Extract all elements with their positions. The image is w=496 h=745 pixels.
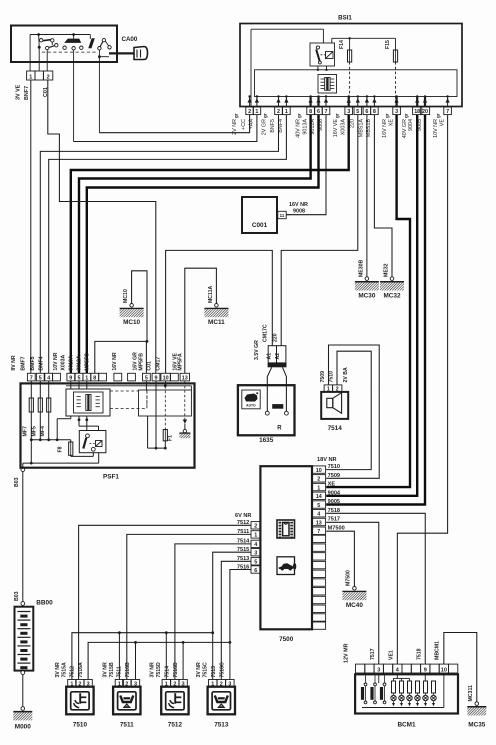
svg-text:7510: 7510 [328,464,340,470]
PSF1 internal ground [179,420,190,439]
BCM1 fuses and outputs [391,681,436,706]
wire 7511 [127,534,251,679]
svg-text:gr: gr [335,113,340,118]
wire 9013A (thick) [79,115,311,374]
svg-text:7514: 7514 [165,666,171,678]
svg-text:12V MR: 12V MR [344,643,350,663]
svg-text:R: R [277,426,282,432]
svg-text:3V NR: 3V NR [196,662,202,678]
svg-text:CM17: CM17 [155,357,161,371]
svg-text:3.5V GR: 3.5V GR [254,340,260,360]
connector box C001 [242,197,277,233]
svg-text:9: 9 [424,667,427,673]
mechanical link dashes [42,51,98,53]
ignition switch CA00 box [11,26,138,63]
svg-text:A1: A1 [266,353,272,360]
svg-text:F14: F14 [339,40,345,49]
wire 7514 [175,544,251,680]
1635 icon [242,390,260,409]
PSF1 box [21,383,195,467]
key symbol [109,47,148,60]
ground MC30 [355,259,379,299]
wire MP5FB to ground MC10 [145,341,148,373]
svg-text:MC11: MC11 [208,319,225,326]
svg-text:5: 5 [39,375,42,381]
svg-text:9004: 9004 [328,490,341,496]
svg-text:14: 14 [316,494,322,500]
svg-text:M7500: M7500 [328,525,345,531]
svg-text:8: 8 [373,109,376,115]
1635 internal bar [272,404,283,409]
svg-text:7518: 7518 [417,648,423,660]
svg-text:BSI1: BSI1 [338,15,352,22]
svg-text:PSF1: PSF1 [103,474,119,481]
BSI connector icon [318,75,337,94]
svg-text:gr: gr [436,113,441,118]
CA00 internal top rail [30,33,90,71]
svg-text:C01: C01 [147,361,153,371]
svg-text:2V GR: 2V GR [262,119,268,135]
svg-text:7500: 7500 [279,636,294,643]
relay coil return [23,440,99,468]
wire 7509 [326,345,379,478]
svg-text:BCM1: BCM1 [397,722,416,729]
svg-text:40V GR: 40V GR [402,119,408,138]
PSF1 connector module A [66,389,110,416]
svg-text:9012A: 9012A [76,355,82,371]
battery BB00 [15,600,54,675]
svg-text:16V NR: 16V NR [112,352,118,370]
svg-text:F8: F8 [58,446,64,452]
svg-text:7516C: 7516C [220,662,226,678]
svg-text:3: 3 [347,109,350,115]
wire MBS1B to MC32 [374,115,392,277]
svg-text:7517: 7517 [370,648,376,660]
svg-text:16V NR: 16V NR [382,119,388,138]
wire 7517 [326,522,379,664]
svg-text:2: 2 [317,477,320,483]
svg-text:7510: 7510 [73,722,88,729]
svg-text:5: 5 [317,503,320,509]
wire +AA [74,115,257,142]
wire BMF7 [30,80,32,373]
svg-text:3V VE: 3V VE [16,84,22,100]
svg-text:1: 1 [29,74,32,80]
svg-text:6V NR: 6V NR [235,513,251,519]
wire MBS1A to MC30 [366,115,368,277]
fuse MF7 [22,381,33,440]
svg-text:B03: B03 [14,477,20,487]
7500 car icon [277,557,296,575]
svg-text:MC311: MC311 [468,685,474,702]
svg-text:VE1: VE1 [389,650,395,660]
svg-text:3: 3 [395,109,398,115]
svg-text:VE: VE [440,119,446,127]
wire XE (thick) [326,115,410,488]
svg-text:11: 11 [280,213,285,218]
svg-text:4: 4 [317,512,320,518]
svg-text:ME32: ME32 [384,263,390,277]
ignition contact 1 [38,35,58,72]
svg-text:2: 2 [248,109,251,115]
BSI wire labels [232,119,445,139]
node B03 bottom [14,591,25,605]
PSF1 module B [139,390,192,416]
ground MC10 [120,289,144,326]
wire CM17 [166,250,273,373]
BCM1 relays [361,675,386,703]
node B03 top [14,468,25,487]
key feed wire [98,55,109,58]
labels 7509 7510 2V BA [320,367,349,383]
svg-text:18V NR: 18V NR [317,457,337,463]
svg-text:7511: 7511 [117,666,123,677]
svg-text:7: 7 [325,109,328,115]
wire 9012A (thick) [87,115,319,374]
svg-text:gr: gr [263,113,268,118]
7500 left pin boxes [251,522,260,574]
svg-text:MC35: MC35 [468,722,485,729]
BCM1 internal feeds [362,673,444,708]
svg-text:7515C: 7515C [202,662,208,678]
7500 box [260,466,312,629]
svg-text:13: 13 [182,375,188,381]
link module to bus [57,416,71,440]
BCM1 box [355,674,458,713]
BSI pin stubs with arrows [248,95,450,107]
svg-text:7515B: 7515B [109,662,115,678]
C001 pin 11 [278,211,290,218]
svg-text:MP5FB: MP5FB [139,353,145,371]
svg-text:XE: XE [328,482,336,488]
svg-text:MC11A: MC11A [208,285,214,303]
wire C01 net [48,80,156,373]
PSF1 fuse bus [30,438,71,441]
ground MC32 [380,263,404,299]
svg-text:7516D: 7516D [173,662,179,678]
svg-text:8: 8 [309,109,312,115]
fuse F8 [58,440,94,457]
svg-text:MC10: MC10 [123,289,129,303]
ignition contact 3 [88,38,111,132]
svg-text:X003A: X003A [60,354,66,370]
svg-text:MC10: MC10 [123,319,140,326]
wire MP5FA to ground MC11 [185,268,217,373]
svg-text:MC30: MC30 [358,293,375,300]
7500 right labels [317,457,345,531]
wire MP5FC [95,340,149,373]
svg-text:10: 10 [441,667,447,673]
svg-text:MF4: MF4 [40,426,46,436]
fuse F15 [385,40,398,62]
svg-text:2: 2 [254,524,257,530]
svg-text:4: 4 [47,375,50,381]
svg-text:5: 5 [254,560,257,566]
wire 7518 [326,513,425,664]
svg-text:9: 9 [69,375,72,381]
svg-text:CM17C: CM17C [262,324,268,342]
svg-text:7515A: 7515A [62,662,68,678]
svg-text:ME30B: ME30B [358,259,364,277]
svg-text:9: 9 [155,375,158,381]
svg-text:7509: 7509 [328,473,340,479]
svg-text:3V NR: 3V NR [55,662,61,678]
svg-text:M7500: M7500 [346,570,352,586]
7514 pins 1 2 [324,385,342,393]
svg-text:18: 18 [414,109,420,115]
svg-text:1635: 1635 [259,437,274,444]
svg-text:7512: 7512 [168,722,183,729]
svg-text:10V NR: 10V NR [53,352,59,370]
ground MC40 [342,570,366,609]
7500 left labels [235,513,251,571]
wire 9008 [286,115,326,215]
BCM1 labels [344,641,441,663]
door switch 7510 [55,662,94,729]
door switch 7511 [103,662,141,729]
wire +CC [99,115,249,133]
svg-text:B03: B03 [14,591,20,601]
PSF1 internal bus [66,384,191,390]
svg-text:gr: gr [297,113,302,118]
svg-text:220: 220 [273,333,279,342]
svg-text:BB00: BB00 [36,600,53,607]
svg-text:MC32: MC32 [383,293,400,300]
svg-text:7513: 7513 [211,666,217,678]
svg-text:MP5FC: MP5FC [85,353,91,371]
7500 chip icon [277,520,295,538]
svg-text:5: 5 [145,375,148,381]
svg-text:1: 1 [85,375,88,381]
svg-text:3: 3 [377,667,380,673]
wire 7513 [221,561,251,679]
svg-text:5: 5 [78,375,81,381]
connector C01 [27,71,53,80]
svg-text:5: 5 [356,109,359,115]
svg-text:gr: gr [385,113,390,118]
fuse MF4 [40,381,51,440]
svg-text:16V NR: 16V NR [289,202,308,208]
wire 7512 [79,525,251,679]
wire 7515 + bus [72,552,251,679]
svg-text:8V NR: 8V NR [11,355,17,371]
BSI internal rail to +CC [251,29,323,107]
svg-text:220: 220 [350,119,356,128]
svg-text:7517: 7517 [328,517,340,523]
svg-text:BMF5: BMF5 [30,356,36,370]
wire X003A (thick) [71,115,349,374]
svg-text:3V NR: 3V NR [150,662,156,678]
svg-text:MP5FA: MP5FA [177,353,183,371]
relay in BSI1 [310,29,335,71]
door switch 7512 [150,662,189,729]
svg-text:10V NR: 10V NR [433,119,439,138]
svg-text:gr: gr [234,113,239,118]
svg-text:MBS1A: MBS1A [359,119,365,138]
label 16V NR 9008 [289,202,308,215]
svg-text:1: 1 [255,109,258,115]
ground MC11 [204,285,228,326]
svg-text:10: 10 [316,468,322,474]
BSI1 inner bus band [255,70,458,97]
fuse F1 [148,430,174,450]
svg-text:6: 6 [365,109,368,115]
link module to relay [78,416,99,431]
svg-text:7511: 7511 [120,722,134,729]
svg-text:9008: 9008 [293,209,305,215]
svg-text:F1: F1 [168,435,174,441]
svg-text:7: 7 [446,109,449,115]
1635 pins A1 A2 [266,346,286,368]
svg-text:X003A: X003A [341,119,347,136]
PSF1 relay [79,431,106,453]
wire BNF5 [40,115,278,374]
svg-text:7516B: 7516B [125,662,131,678]
svg-text:1: 1 [317,485,320,491]
wire 220 [281,115,358,346]
svg-text:F15: F15 [385,40,391,49]
svg-text:9005: 9005 [328,499,340,505]
wire 9004 (thick) [326,115,417,496]
svg-text:7513: 7513 [214,722,229,729]
svg-text:BMF4: BMF4 [38,356,44,370]
1635 lead wires [265,367,288,415]
wire battery to M000 [22,675,24,707]
svg-text:1: 1 [254,533,257,539]
svg-text:8: 8 [93,375,96,381]
1635 box [238,385,295,435]
svg-text:7: 7 [30,375,33,381]
ignition contact 2 [63,35,83,142]
ground MC35 [467,685,486,729]
svg-text:10: 10 [163,375,169,381]
svg-text:7516A: 7516A [78,662,84,678]
svg-text:2V BA: 2V BA [343,367,349,383]
svg-text:20: 20 [422,109,428,115]
svg-text:9013A: 9013A [302,119,308,135]
PSF1 dashed module extension [110,391,147,409]
label 3V VE BNF7 C01 [16,84,50,100]
svg-text:BNF5: BNF5 [270,119,276,133]
svg-text:+CC: +CC [241,119,247,130]
svg-text:9004: 9004 [408,119,414,131]
labels 3.5V GR CM17C 220 [254,324,278,360]
svg-text:3V NR: 3V NR [103,662,109,678]
BSI pin boxes [246,107,452,115]
svg-text:MF5: MF5 [31,426,37,436]
svg-text:3: 3 [254,551,257,557]
PSF1 top labels [11,352,184,371]
svg-text:4: 4 [254,542,257,548]
svg-text:16V VE: 16V VE [333,119,339,138]
BCM1 pin row [356,664,458,673]
svg-text:2: 2 [47,74,50,80]
svg-text:gr: gr [404,113,409,118]
wire M7500 to MC40 [326,531,354,586]
wire 9005 (thick) [326,115,425,505]
svg-text:6: 6 [317,109,320,115]
svg-text:1: 1 [285,109,288,115]
wires pins 9,5,1 into module [71,381,87,389]
wire MBCM1 to MC35 [444,633,477,702]
svg-text:XE: XE [389,119,395,127]
PSF1 top pin boxes [27,373,189,381]
wire B03 to battery [22,472,24,602]
svg-text:M000: M000 [15,724,31,731]
svg-text:7514: 7514 [328,425,343,432]
wire 7510 [326,351,371,469]
svg-text:MC40: MC40 [346,602,363,609]
fuse F14 [339,40,352,62]
dashed internal links F14/F15 to pins [349,62,351,107]
svg-text:9013A: 9013A [69,355,75,371]
svg-text:40V NR: 40V NR [296,119,302,138]
svg-text:7510: 7510 [329,371,335,383]
7500 right pin boxes [312,466,326,629]
fuse MF5 [31,381,42,440]
svg-text:7: 7 [317,529,320,535]
svg-text:AUTO: AUTO [246,403,256,407]
svg-text:A2: A2 [275,353,281,360]
ground M000 [13,707,32,731]
svg-text:7512: 7512 [70,666,76,678]
svg-text:MF7: MF7 [22,426,28,436]
BSI1 box [240,24,462,107]
door switch 7513 [196,662,235,729]
wire VE / VE1 [397,115,447,665]
7514 box with speaker icon [321,392,348,419]
wires pins 5,9,10,13 right side [146,381,184,450]
BSI connector code marks [234,113,441,118]
svg-text:13: 13 [316,520,322,526]
svg-text:MBCM1: MBCM1 [435,641,441,660]
svg-text:2: 2 [277,109,280,115]
svg-text:BMF7: BMF7 [21,356,27,370]
svg-text:7509: 7509 [320,371,326,383]
svg-text:C001: C001 [252,222,268,229]
svg-text:BNF7: BNF7 [24,86,30,100]
wire BNF4 [49,115,287,374]
wire 7516 + bus [88,570,251,680]
svg-text:6: 6 [254,568,257,574]
rail to fuses F14 F15 [332,37,396,50]
svg-text:7515D: 7515D [156,662,162,678]
svg-text:CA00: CA00 [122,36,138,43]
